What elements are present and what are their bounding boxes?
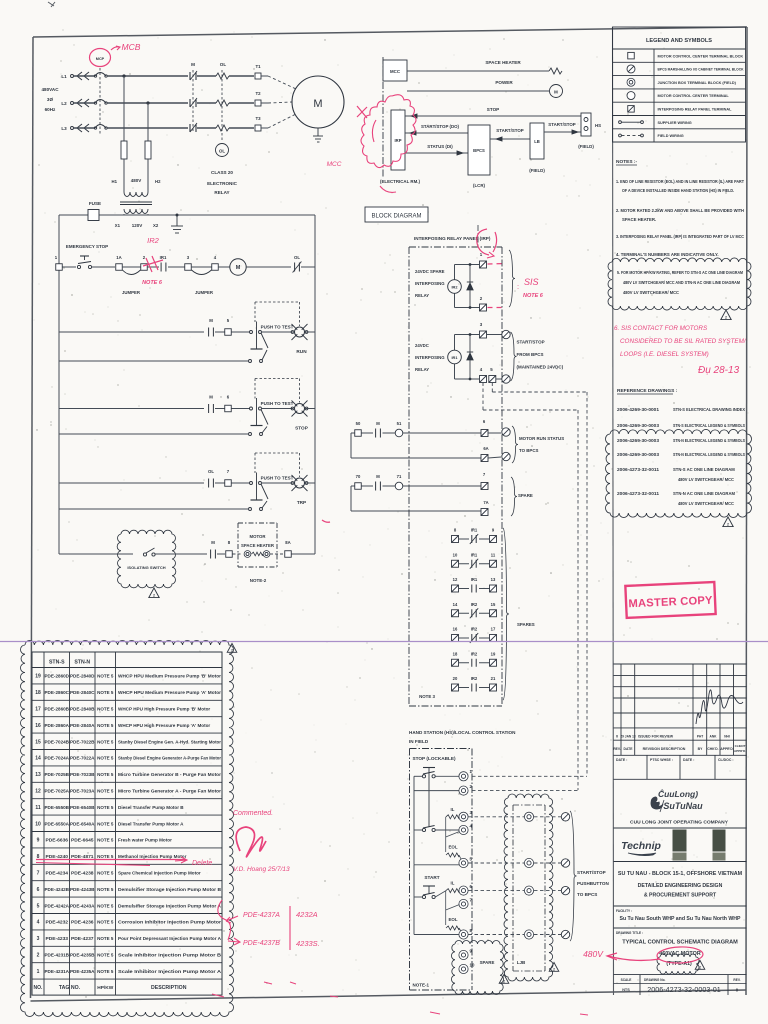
svg-text:NOTE 5: NOTE 5 <box>97 969 114 974</box>
svg-text:DATE :: DATE : <box>683 758 694 762</box>
svg-text:PDE-7025B: PDE-7025B <box>45 772 70 778</box>
svg-text:CUU LONG JOINT OPERATING COMP: CUU LONG JOINT OPERATING COMPANY <box>630 820 729 826</box>
svg-text:4. TERMINAL'S NUMBERS ARE INDI: 4. TERMINAL'S NUMBERS ARE INDICATIVE ONL… <box>616 252 719 257</box>
svg-text:DATE :: DATE : <box>616 758 627 762</box>
svg-text:PDE-4242A: PDE-4242A <box>45 903 70 909</box>
svg-text:Micro Turbine Generator B - Pu: Micro Turbine Generator B - Purge Fan Mo… <box>118 772 221 777</box>
svg-text:18: 18 <box>35 690 41 696</box>
svg-text:2006-4269-30-0003: 2006-4269-30-0003 <box>617 438 660 443</box>
svg-text:NOTE 6: NOTE 6 <box>523 293 544 299</box>
svg-text:NOTE 3: NOTE 3 <box>419 694 435 699</box>
svg-text:2006-4273-32-0011: 2006-4273-32-0011 <box>617 467 660 472</box>
svg-text:NOTE 5: NOTE 5 <box>97 953 114 958</box>
svg-text:10: 10 <box>453 552 458 557</box>
svg-text:NOTE-1: NOTE-1 <box>413 983 430 988</box>
svg-text:PDE-4238: PDE-4238 <box>71 871 94 877</box>
svg-text:PDE-4237: PDE-4237 <box>71 936 94 942</box>
svg-text:2006-4273-32-0011: 2006-4273-32-0011 <box>617 491 660 496</box>
svg-text:PDE-4243A: PDE-4243A <box>70 903 95 909</box>
svg-text:(ELECTRICAL RM.): (ELECTRICAL RM.) <box>380 179 420 184</box>
svg-text:1A: 1A <box>116 255 122 260</box>
svg-text:Demulsifier Storage Injection: Demulsifier Storage Injection Pump Motor… <box>118 903 222 908</box>
svg-text:PDE-6636: PDE-6636 <box>45 838 68 844</box>
svg-text:IL: IL <box>451 881 455 886</box>
svg-text:APPR'D.: APPR'D. <box>734 749 746 753</box>
svg-text:SPARE: SPARE <box>518 493 533 498</box>
svg-text:PDE-4243B: PDE-4243B <box>70 887 95 893</box>
svg-text:8A: 8A <box>285 540 291 545</box>
svg-text:Đụ 28-13: Đụ 28-13 <box>698 365 740 376</box>
svg-text:Demulsifier Storage Injection: Demulsifier Storage Injection Pump Motor… <box>118 887 222 892</box>
svg-text:PDE-2860C: PDE-2860C <box>45 690 70 696</box>
svg-text:24VDC SPARE: 24VDC SPARE <box>415 269 445 274</box>
svg-text:SPACE HEATER.: SPACE HEATER. <box>622 217 656 222</box>
svg-text:15: 15 <box>491 602 496 607</box>
svg-text:24VDC: 24VDC <box>415 343 429 348</box>
svg-text:3. INTERPOSING RELAY PANEL (IR: 3. INTERPOSING RELAY PANEL (IRP) IS INTE… <box>616 234 744 239</box>
svg-text:IR1: IR1 <box>451 355 458 360</box>
svg-text:Methanol Injection Pump Motor: Methanol Injection Pump Motor <box>118 854 187 859</box>
svg-text:NTS: NTS <box>622 988 630 992</box>
svg-text:PDE-4237A: PDE-4237A <box>243 912 280 919</box>
svg-text:Corrosion Inhibitor Injection: Corrosion Inhibitor Injection Pump Motor <box>118 920 221 925</box>
svg-text:20: 20 <box>453 676 458 681</box>
svg-text:PDE-2860A: PDE-2860A <box>45 723 70 729</box>
svg-text:HP/KW: HP/KW <box>97 985 113 991</box>
svg-text:PDE-6550B: PDE-6550B <box>45 805 70 811</box>
svg-text:PDE-4234: PDE-4234 <box>45 871 68 877</box>
svg-text:H1: H1 <box>112 179 118 184</box>
svg-text:TRP: TRP <box>297 500 306 505</box>
svg-text:PDE-7023B: PDE-7023B <box>70 772 95 778</box>
svg-text:MCP: MCP <box>96 57 105 61</box>
svg-text:M: M <box>209 395 213 400</box>
svg-text:CL/DOC :: CL/DOC : <box>718 758 734 762</box>
svg-text:PUSH TO TEST: PUSH TO TEST <box>261 401 294 406</box>
svg-text:M: M <box>313 98 322 110</box>
svg-text:JUMPER: JUMPER <box>122 290 141 295</box>
svg-text:SU TU NAU - BLOCK 15-1, OFFSHO: SU TU NAU - BLOCK 15-1, OFFSHORE VIETNAM <box>618 871 743 877</box>
svg-text:NOTE 5: NOTE 5 <box>97 789 114 794</box>
svg-text:TO BPCS: TO BPCS <box>577 892 597 897</box>
svg-text:480V: 480V <box>131 178 142 183</box>
svg-text:SPACE HEATER: SPACE HEATER <box>241 543 275 548</box>
svg-text:IR2: IR2 <box>471 651 478 656</box>
svg-text:NOTE 5: NOTE 5 <box>97 821 114 826</box>
svg-text:STN-N ELECTRICAL LEGEND & SYMB: STN-N ELECTRICAL LEGEND & SYMBOLS <box>673 452 745 457</box>
svg-text:0: 0 <box>616 735 618 739</box>
svg-text::: : <box>517 282 519 291</box>
svg-text:21: 21 <box>491 676 496 681</box>
svg-text:2. MOTOR RATED 2.2kW AND ABOVE: 2. MOTOR RATED 2.2kW AND ABOVE SHALL BE … <box>616 208 744 213</box>
svg-text:2006-4269-30-0001: 2006-4269-30-0001 <box>617 407 660 412</box>
svg-text:IR2: IR2 <box>471 627 478 632</box>
svg-text:FUSE: FUSE <box>89 201 101 206</box>
svg-text:PDE-4235B: PDE-4235B <box>70 953 95 959</box>
svg-text:3: 3 <box>37 936 40 942</box>
svg-text:ĈuuLong): ĈuuLong) <box>658 788 698 799</box>
svg-text:EOL: EOL <box>448 845 457 850</box>
svg-text:MCC: MCC <box>327 161 342 168</box>
svg-text:FROM BPCS: FROM BPCS <box>517 352 544 357</box>
svg-text:14: 14 <box>35 756 41 762</box>
svg-text:2: 2 <box>231 649 233 653</box>
svg-text:PDE-7022A: PDE-7022A <box>70 756 95 762</box>
svg-text:ISSUED FOR REVIEW: ISSUED FOR REVIEW <box>638 735 674 739</box>
svg-text:PDE-4232: PDE-4232 <box>45 920 68 926</box>
svg-text:480V LV SWITCHGEAR/ MCC: 480V LV SWITCHGEAR/ MCC <box>678 477 734 482</box>
svg-text:IR2: IR2 <box>471 676 478 681</box>
svg-text:MOTOR CONTROL CENTER TERMINAL: MOTOR CONTROL CENTER TERMINAL BLOCK <box>658 54 744 58</box>
svg-text:MCC: MCC <box>390 69 401 74</box>
svg-text:5: 5 <box>37 903 40 909</box>
svg-text:NOTE 5: NOTE 5 <box>97 871 114 876</box>
svg-text:LOOPS (I.E. DIESEL SYSTEM): LOOPS (I.E. DIESEL SYSTEM) <box>620 351 709 358</box>
svg-text:PUSHBUTTON: PUSHBUTTON <box>577 881 610 886</box>
svg-text:INTERPOSING RELAY PANEL TERMIN: INTERPOSING RELAY PANEL TERMINAL <box>658 107 733 111</box>
svg-text:START/STOP: START/STOP <box>548 122 575 127</box>
svg-text:PDE-6645: PDE-6645 <box>71 838 94 844</box>
svg-text:6. SIS CONTACT FOR MOTORS: 6. SIS CONTACT FOR MOTORS <box>614 325 708 332</box>
svg-text:10: 10 <box>35 821 41 827</box>
svg-text:6: 6 <box>37 887 40 893</box>
svg-text:SPARE: SPARE <box>480 960 495 965</box>
svg-text:(MAINTAINED 24VDC): (MAINTAINED 24VDC) <box>517 365 564 370</box>
svg-text:NOTE 5: NOTE 5 <box>97 936 114 941</box>
svg-text:LEGEND AND SYMBOLS: LEGEND AND SYMBOLS <box>646 38 712 44</box>
svg-text:BLOCK DIAGRAM: BLOCK DIAGRAM <box>371 214 421 220</box>
svg-text:Diesel Transfer Pump Motor A: Diesel Transfer Pump Motor A <box>118 821 184 826</box>
svg-text:STN-S ELECTRICAL DRAWING INDEX: STN-S ELECTRICAL DRAWING INDEX <box>673 407 745 412</box>
svg-text:STN-N: STN-N <box>74 660 90 666</box>
svg-text:REV.: REV. <box>733 978 740 982</box>
svg-text:480V LV SWITCHGEAR/ MCC: 480V LV SWITCHGEAR/ MCC <box>623 290 679 295</box>
svg-text:NOTE 5: NOTE 5 <box>97 887 114 892</box>
svg-text:6A: 6A <box>483 446 488 451</box>
svg-text:SPACE HEATER: SPACE HEATER <box>485 60 521 65</box>
svg-text:OL: OL <box>219 149 225 154</box>
svg-text:Stanby Diesel Engine Generator: Stanby Diesel Engine Generator A-Purge F… <box>118 756 221 761</box>
svg-text:T2: T2 <box>255 91 261 96</box>
svg-text:PDE-4231B: PDE-4231B <box>45 953 70 959</box>
svg-text:Micro Turbine Generator A - Pu: Micro Turbine Generator A - Purge Fan Mo… <box>118 789 221 794</box>
svg-text:TAG NO.: TAG NO. <box>59 985 81 991</box>
svg-text:5. FOR MOTOR HP/KW RATING, REF: 5. FOR MOTOR HP/KW RATING, REFER TO STN-… <box>617 270 743 275</box>
svg-text:50: 50 <box>356 421 361 426</box>
svg-text:INTERPOSING: INTERPOSING <box>415 355 445 360</box>
svg-text:PTSC WHSE :: PTSC WHSE : <box>650 758 673 762</box>
svg-text:NOTE 5: NOTE 5 <box>97 854 114 859</box>
svg-text:2006-4269-30-0003: 2006-4269-30-0003 <box>617 452 660 457</box>
svg-text:4: 4 <box>37 920 40 926</box>
svg-text:2: 2 <box>727 523 729 527</box>
svg-text:16: 16 <box>453 627 458 632</box>
svg-text:2006-4273-32-0003-01: 2006-4273-32-0003-01 <box>647 985 721 994</box>
svg-text:START: START <box>424 875 439 880</box>
svg-text:ANK: ANK <box>710 735 718 739</box>
svg-text:PDE-2860D: PDE-2860D <box>45 674 70 680</box>
svg-text:RELAY: RELAY <box>415 293 429 298</box>
svg-text:Su Tu Nau South WHP and Su Tu: Su Tu Nau South WHP and Su Tu Nau North … <box>619 916 741 922</box>
svg-text:480VAC: 480VAC <box>41 87 59 92</box>
svg-text:RELAY: RELAY <box>415 367 429 372</box>
svg-text:DESCRIPTION: DESCRIPTION <box>151 985 187 991</box>
svg-text:ISOLATING SWITCH: ISOLATING SWITCH <box>127 565 165 570</box>
svg-text:Commented.: Commented. <box>233 810 273 817</box>
svg-text:BPCS MARSHALLING I/O CABINET T: BPCS MARSHALLING I/O CABINET TERMINAL BL… <box>658 68 744 72</box>
svg-text:12: 12 <box>453 577 458 582</box>
svg-text:480V LV SWITCHGEAR/ MCC AND ST: 480V LV SWITCHGEAR/ MCC AND STN-N AC ONE… <box>623 280 740 285</box>
svg-text:DRAWING No.: DRAWING No. <box>644 978 666 982</box>
svg-text:71: 71 <box>397 474 402 479</box>
svg-text:NOTE 5: NOTE 5 <box>97 674 114 679</box>
svg-text:PDE-2840B: PDE-2840B <box>70 707 95 713</box>
svg-text:REVISION DESCRIPTION: REVISION DESCRIPTION <box>643 747 686 751</box>
svg-text:Pour Point Depressant Injectio: Pour Point Depressant Injection Pump Mot… <box>118 936 222 941</box>
svg-text:PDE-6550A: PDE-6550A <box>45 821 70 827</box>
svg-text:PDE-2860B: PDE-2860B <box>45 707 70 713</box>
svg-text:Fresh water Pump Motor: Fresh water Pump Motor <box>118 838 172 843</box>
svg-text:ELECTRONIC: ELECTRONIC <box>207 181 238 186</box>
svg-text:NOTE 5: NOTE 5 <box>97 920 114 925</box>
svg-text:STATUS (DI): STATUS (DI) <box>427 144 453 149</box>
svg-text:STN-S: STN-S <box>49 660 65 666</box>
svg-text:2: 2 <box>699 966 701 970</box>
svg-text:NOTE 5: NOTE 5 <box>97 707 114 712</box>
svg-text:& PROCUREMENT SUPPORT: & PROCUREMENT SUPPORT <box>644 893 717 899</box>
svg-text:PDE-2840C: PDE-2840C <box>70 690 95 696</box>
svg-text:EMERGENCY STOP: EMERGENCY STOP <box>66 244 108 249</box>
svg-text:DETAILED ENGINEERING DESIGN: DETAILED ENGINEERING DESIGN <box>638 883 723 889</box>
svg-text:L3: L3 <box>61 126 67 131</box>
svg-text:MOTOR RUN STATUS: MOTOR RUN STATUS <box>519 436 564 441</box>
svg-text:HS: HS <box>595 123 601 128</box>
svg-text:17: 17 <box>491 627 496 632</box>
svg-text:STN-S AC ONE LINE DIAGRAM: STN-S AC ONE LINE DIAGRAM <box>673 467 735 472</box>
svg-text:19: 19 <box>491 651 496 656</box>
svg-text:NOTE 6: NOTE 6 <box>142 280 163 286</box>
svg-text:17: 17 <box>35 707 41 713</box>
svg-text:RUN: RUN <box>296 349 307 354</box>
svg-text:DRAWING TITLE :: DRAWING TITLE : <box>616 931 643 935</box>
svg-text:13: 13 <box>491 577 496 582</box>
svg-text:NOTE 5: NOTE 5 <box>97 756 114 761</box>
svg-text:X2: X2 <box>153 223 159 228</box>
svg-text:29 JAN 13: 29 JAN 13 <box>620 735 635 739</box>
svg-text:2: 2 <box>37 953 40 959</box>
svg-text:TYPICAL CONTROL SCHEMATIC DIAG: TYPICAL CONTROL SCHEMATIC DIAGRAM <box>622 940 738 946</box>
svg-text:H2: H2 <box>155 179 161 184</box>
svg-text:480V LV SWITCHGEAR/ MCC: 480V LV SWITCHGEAR/ MCC <box>678 501 734 506</box>
svg-text:PDE-6540A: PDE-6540A <box>70 821 95 827</box>
svg-text:V.D. Hoang 25/7/13: V.D. Hoang 25/7/13 <box>233 866 290 873</box>
svg-text:NOTE-2: NOTE-2 <box>250 578 267 583</box>
svg-text:START/STOP: START/STOP <box>517 340 545 345</box>
svg-text:9: 9 <box>37 838 40 844</box>
svg-text:(FIELD): (FIELD) <box>578 144 594 149</box>
svg-text:IR1: IR1 <box>160 255 167 260</box>
svg-text:M: M <box>376 421 380 426</box>
svg-text:T3: T3 <box>255 116 261 121</box>
svg-text:Stanby Diesel Engine Gen. A-Hy: Stanby Diesel Engine Gen. A-Hyd. Startin… <box>118 739 221 744</box>
svg-text:STN-N ELECTRICAL LEGEND & SYMB: STN-N ELECTRICAL LEGEND & SYMBOLS <box>673 438 745 443</box>
svg-text:LB: LB <box>534 139 540 144</box>
svg-text:OL: OL <box>294 255 300 260</box>
svg-text:EOL: EOL <box>448 917 457 922</box>
svg-text:BPCS: BPCS <box>473 148 485 153</box>
svg-text:NOTE 5: NOTE 5 <box>97 772 114 777</box>
svg-text:START/STOP (DO): START/STOP (DO) <box>421 124 460 129</box>
svg-text:Scale Inhibitor Injection Pump: Scale Inhibitor Injection Pump Motor A <box>118 969 222 974</box>
svg-text:STN-S ELECTRICAL LEGEND & SYMB: STN-S ELECTRICAL LEGEND & SYMBOLS <box>673 423 745 428</box>
svg-text:STN-N AC ONE LINE DIAGRAM: STN-N AC ONE LINE DIAGRAM <box>673 491 735 496</box>
svg-text:MOTOR: MOTOR <box>250 534 267 539</box>
svg-text:SuTuNau: SuTuNau <box>663 801 703 811</box>
svg-text:PDE-4242B: PDE-4242B <box>45 887 70 893</box>
svg-text:1: 1 <box>37 969 40 975</box>
svg-text:14: 14 <box>453 602 458 607</box>
svg-text:OL: OL <box>220 62 227 67</box>
svg-text:51: 51 <box>397 421 402 426</box>
svg-text:15: 15 <box>35 739 41 745</box>
svg-text:REV.: REV. <box>613 747 621 751</box>
svg-text:PDE-7022B: PDE-7022B <box>70 739 95 745</box>
svg-text:M: M <box>376 474 380 479</box>
svg-text:MCB: MCB <box>122 42 141 52</box>
svg-text:2: 2 <box>503 980 505 984</box>
svg-text:START/STOP: START/STOP <box>496 128 523 133</box>
svg-text:NHI: NHI <box>724 735 730 739</box>
svg-text:60Hz: 60Hz <box>45 107 56 112</box>
svg-text:11: 11 <box>491 552 496 557</box>
svg-text:IR2: IR2 <box>147 236 160 245</box>
svg-text:M: M <box>211 540 215 545</box>
svg-text:PDE-4231A: PDE-4231A <box>45 969 70 975</box>
svg-text:18: 18 <box>453 651 458 656</box>
svg-text:WHCP HPU High Pressure Pump 'A: WHCP HPU High Pressure Pump 'A' Motor <box>118 723 210 728</box>
svg-text:PDE-4237B: PDE-4237B <box>243 940 280 947</box>
svg-text:PDE-7025A: PDE-7025A <box>45 789 70 795</box>
svg-text:SIS: SIS <box>524 277 539 287</box>
svg-text:START/STOP: START/STOP <box>577 870 606 875</box>
svg-text:BY: BY <box>698 747 703 751</box>
svg-text:480V: 480V <box>583 949 604 959</box>
svg-text:CLASS 20: CLASS 20 <box>211 170 233 175</box>
svg-text:PHT: PHT <box>697 735 703 739</box>
svg-text:Delete: Delete <box>192 860 212 867</box>
svg-text:7: 7 <box>37 871 40 877</box>
svg-text:SPARES: SPARES <box>517 622 535 627</box>
svg-text:PDE-4236: PDE-4236 <box>71 920 94 926</box>
svg-text:NOTES :-: NOTES :- <box>616 159 637 165</box>
svg-text:4232A: 4232A <box>296 910 318 919</box>
svg-text:SCALE: SCALE <box>621 978 632 982</box>
svg-text:X1: X1 <box>115 223 121 228</box>
svg-text:2: 2 <box>153 594 155 598</box>
svg-text:PDE-4235A: PDE-4235A <box>70 969 95 975</box>
svg-text:120V: 120V <box>132 223 143 228</box>
svg-text:DATE: DATE <box>624 747 634 751</box>
svg-text:IR1: IR1 <box>471 577 478 582</box>
svg-text:13: 13 <box>35 772 41 778</box>
svg-text:16: 16 <box>35 723 41 729</box>
svg-text:JUNCTION BOX TERMINAL BLOCK (F: JUNCTION BOX TERMINAL BLOCK (FIELD) <box>658 81 737 85</box>
svg-text:1. END OF LINE RESISTOR (EOL): 1. END OF LINE RESISTOR (EOL) AND IN LIN… <box>616 179 744 184</box>
svg-text:4233S.: 4233S. <box>296 939 320 948</box>
svg-text:SUPPLIER WIRING: SUPPLIER WIRING <box>658 121 692 125</box>
svg-text:M: M <box>554 90 558 95</box>
svg-text:NOTE 5: NOTE 5 <box>97 903 114 908</box>
svg-text:OL: OL <box>208 469 214 474</box>
svg-text:INTERPOSING: INTERPOSING <box>415 281 445 286</box>
svg-text:PDE-6540B: PDE-6540B <box>70 805 95 811</box>
svg-text:IL: IL <box>451 807 455 812</box>
svg-text:11: 11 <box>35 805 41 811</box>
svg-text:OF A DEVICE INSTALLED INSIDE H: OF A DEVICE INSTALLED INSIDE HAND STATIO… <box>622 188 734 193</box>
svg-text:PDE-7024A: PDE-7024A <box>45 756 70 762</box>
svg-text:10: 10 <box>470 963 475 968</box>
svg-text:M: M <box>209 318 213 323</box>
svg-text:RELAY: RELAY <box>214 190 229 195</box>
svg-text:LJB: LJB <box>517 960 526 965</box>
svg-text:PDE-7023A: PDE-7023A <box>70 789 95 795</box>
svg-text:APPR'D.: APPR'D. <box>720 747 733 751</box>
svg-text:NOTE 5: NOTE 5 <box>97 690 114 695</box>
svg-text:FACILITY :: FACILITY : <box>616 909 632 913</box>
svg-text:NOTE 5: NOTE 5 <box>97 723 114 728</box>
svg-text:PDE-4233: PDE-4233 <box>45 936 68 942</box>
svg-text:Scale Inhibitor Injection Pump: Scale Inhibitor Injection Pump Motor B <box>118 953 222 958</box>
svg-text:CHK'D.: CHK'D. <box>707 747 718 751</box>
svg-text:STOP (LOCKABLE): STOP (LOCKABLE) <box>413 756 456 761</box>
svg-text:NO.: NO. <box>34 985 44 991</box>
svg-text:FIELD WIRING: FIELD WIRING <box>658 134 684 138</box>
svg-text:19: 19 <box>35 674 41 680</box>
svg-text:Diesel Transfer Pump Motor B: Diesel Transfer Pump Motor B <box>118 805 184 810</box>
svg-text:WHCP HPU Medium Pressure Pump: WHCP HPU Medium Pressure Pump 'B' Motor <box>118 674 221 679</box>
svg-text:IN FIELD: IN FIELD <box>409 739 429 744</box>
svg-text:IRP: IRP <box>395 138 402 143</box>
svg-text:Technip: Technip <box>621 840 661 852</box>
svg-text:NOTE 5: NOTE 5 <box>97 739 114 744</box>
svg-text:WHCP HPU High Pressure Pump 'B: WHCP HPU High Pressure Pump 'B' Motor <box>118 707 210 712</box>
svg-text:STOP: STOP <box>487 107 499 112</box>
svg-text:PDE-7024B: PDE-7024B <box>45 739 70 745</box>
svg-text:7A: 7A <box>483 500 488 505</box>
svg-text:INTERPOSING RELAY PANEL (IRP): INTERPOSING RELAY PANEL (IRP) <box>414 236 491 241</box>
svg-text:IR2: IR2 <box>451 285 458 290</box>
svg-text:CLIENT: CLIENT <box>735 744 746 748</box>
svg-text:3Ø: 3Ø <box>47 97 54 102</box>
svg-text:70: 70 <box>356 474 361 479</box>
svg-text:REFERENCE DRAWINGS :: REFERENCE DRAWINGS : <box>617 388 678 394</box>
svg-text:STOP: STOP <box>295 426 308 431</box>
svg-text:PUSH TO TEST: PUSH TO TEST <box>261 325 294 330</box>
svg-text:(FIELD): (FIELD) <box>529 168 545 173</box>
svg-text:HAND STATION (HS)/LOCAL CONTRO: HAND STATION (HS)/LOCAL CONTROL STATION <box>409 730 516 735</box>
svg-text:NOTE 5: NOTE 5 <box>97 805 114 810</box>
svg-text:M: M <box>236 265 241 271</box>
svg-text:Spare Chemical Injection Pump: Spare Chemical Injection Pump Motor <box>118 871 201 876</box>
svg-text:12: 12 <box>35 789 41 795</box>
svg-text:IR1: IR1 <box>471 528 478 533</box>
svg-text:IR2: IR2 <box>471 602 478 607</box>
svg-text:L1: L1 <box>61 74 67 79</box>
svg-text:PDE-2840D: PDE-2840D <box>70 674 95 680</box>
svg-text:NOTE 5: NOTE 5 <box>97 838 114 843</box>
svg-text:PDE-2840A: PDE-2840A <box>70 723 95 729</box>
svg-text:TO BPCS: TO BPCS <box>519 448 539 453</box>
